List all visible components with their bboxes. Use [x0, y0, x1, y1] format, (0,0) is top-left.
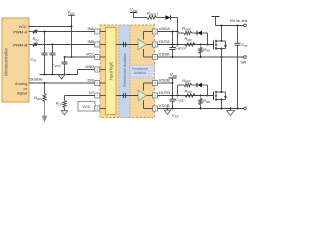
svg-text:15: 15 [153, 43, 157, 47]
svg-text:14: 14 [153, 55, 157, 59]
svg-text:DIS: DIS [88, 77, 95, 82]
svg-text:GND: GND [85, 64, 94, 69]
svg-text:VSSB: VSSB [159, 103, 170, 108]
svg-text:SW: SW [240, 61, 246, 65]
svg-text:digital: digital [17, 91, 27, 96]
svg-text:OUTA: OUTA [159, 39, 170, 44]
svg-text:PWM-B: PWM-B [13, 43, 27, 48]
svg-text:VCC: VCC [86, 51, 95, 56]
svg-text:16: 16 [153, 30, 157, 34]
svg-text:VDDA: VDDA [159, 26, 170, 31]
svg-text:PWM-A: PWM-A [13, 29, 27, 34]
svg-text:INB: INB [88, 39, 95, 44]
svg-text:VSSA: VSSA [159, 51, 170, 56]
svg-text:VCC: VCC [82, 104, 90, 109]
svg-text:Input logic: Input logic [109, 62, 114, 81]
svg-text:INA: INA [88, 26, 95, 31]
svg-text:VCC: VCC [19, 24, 28, 29]
svg-text:10: 10 [153, 94, 157, 98]
svg-text:Disable: Disable [30, 76, 43, 81]
svg-text:Microcontroller: Microcontroller [4, 47, 9, 76]
svg-text:OUTB: OUTB [159, 90, 170, 95]
svg-text:Reinforced isolation: Reinforced isolation [122, 53, 127, 87]
svg-text:isolation: isolation [134, 71, 147, 75]
svg-text:HV dc-link: HV dc-link [230, 18, 248, 23]
svg-text:DT: DT [89, 90, 95, 95]
svg-text:11: 11 [154, 81, 157, 85]
